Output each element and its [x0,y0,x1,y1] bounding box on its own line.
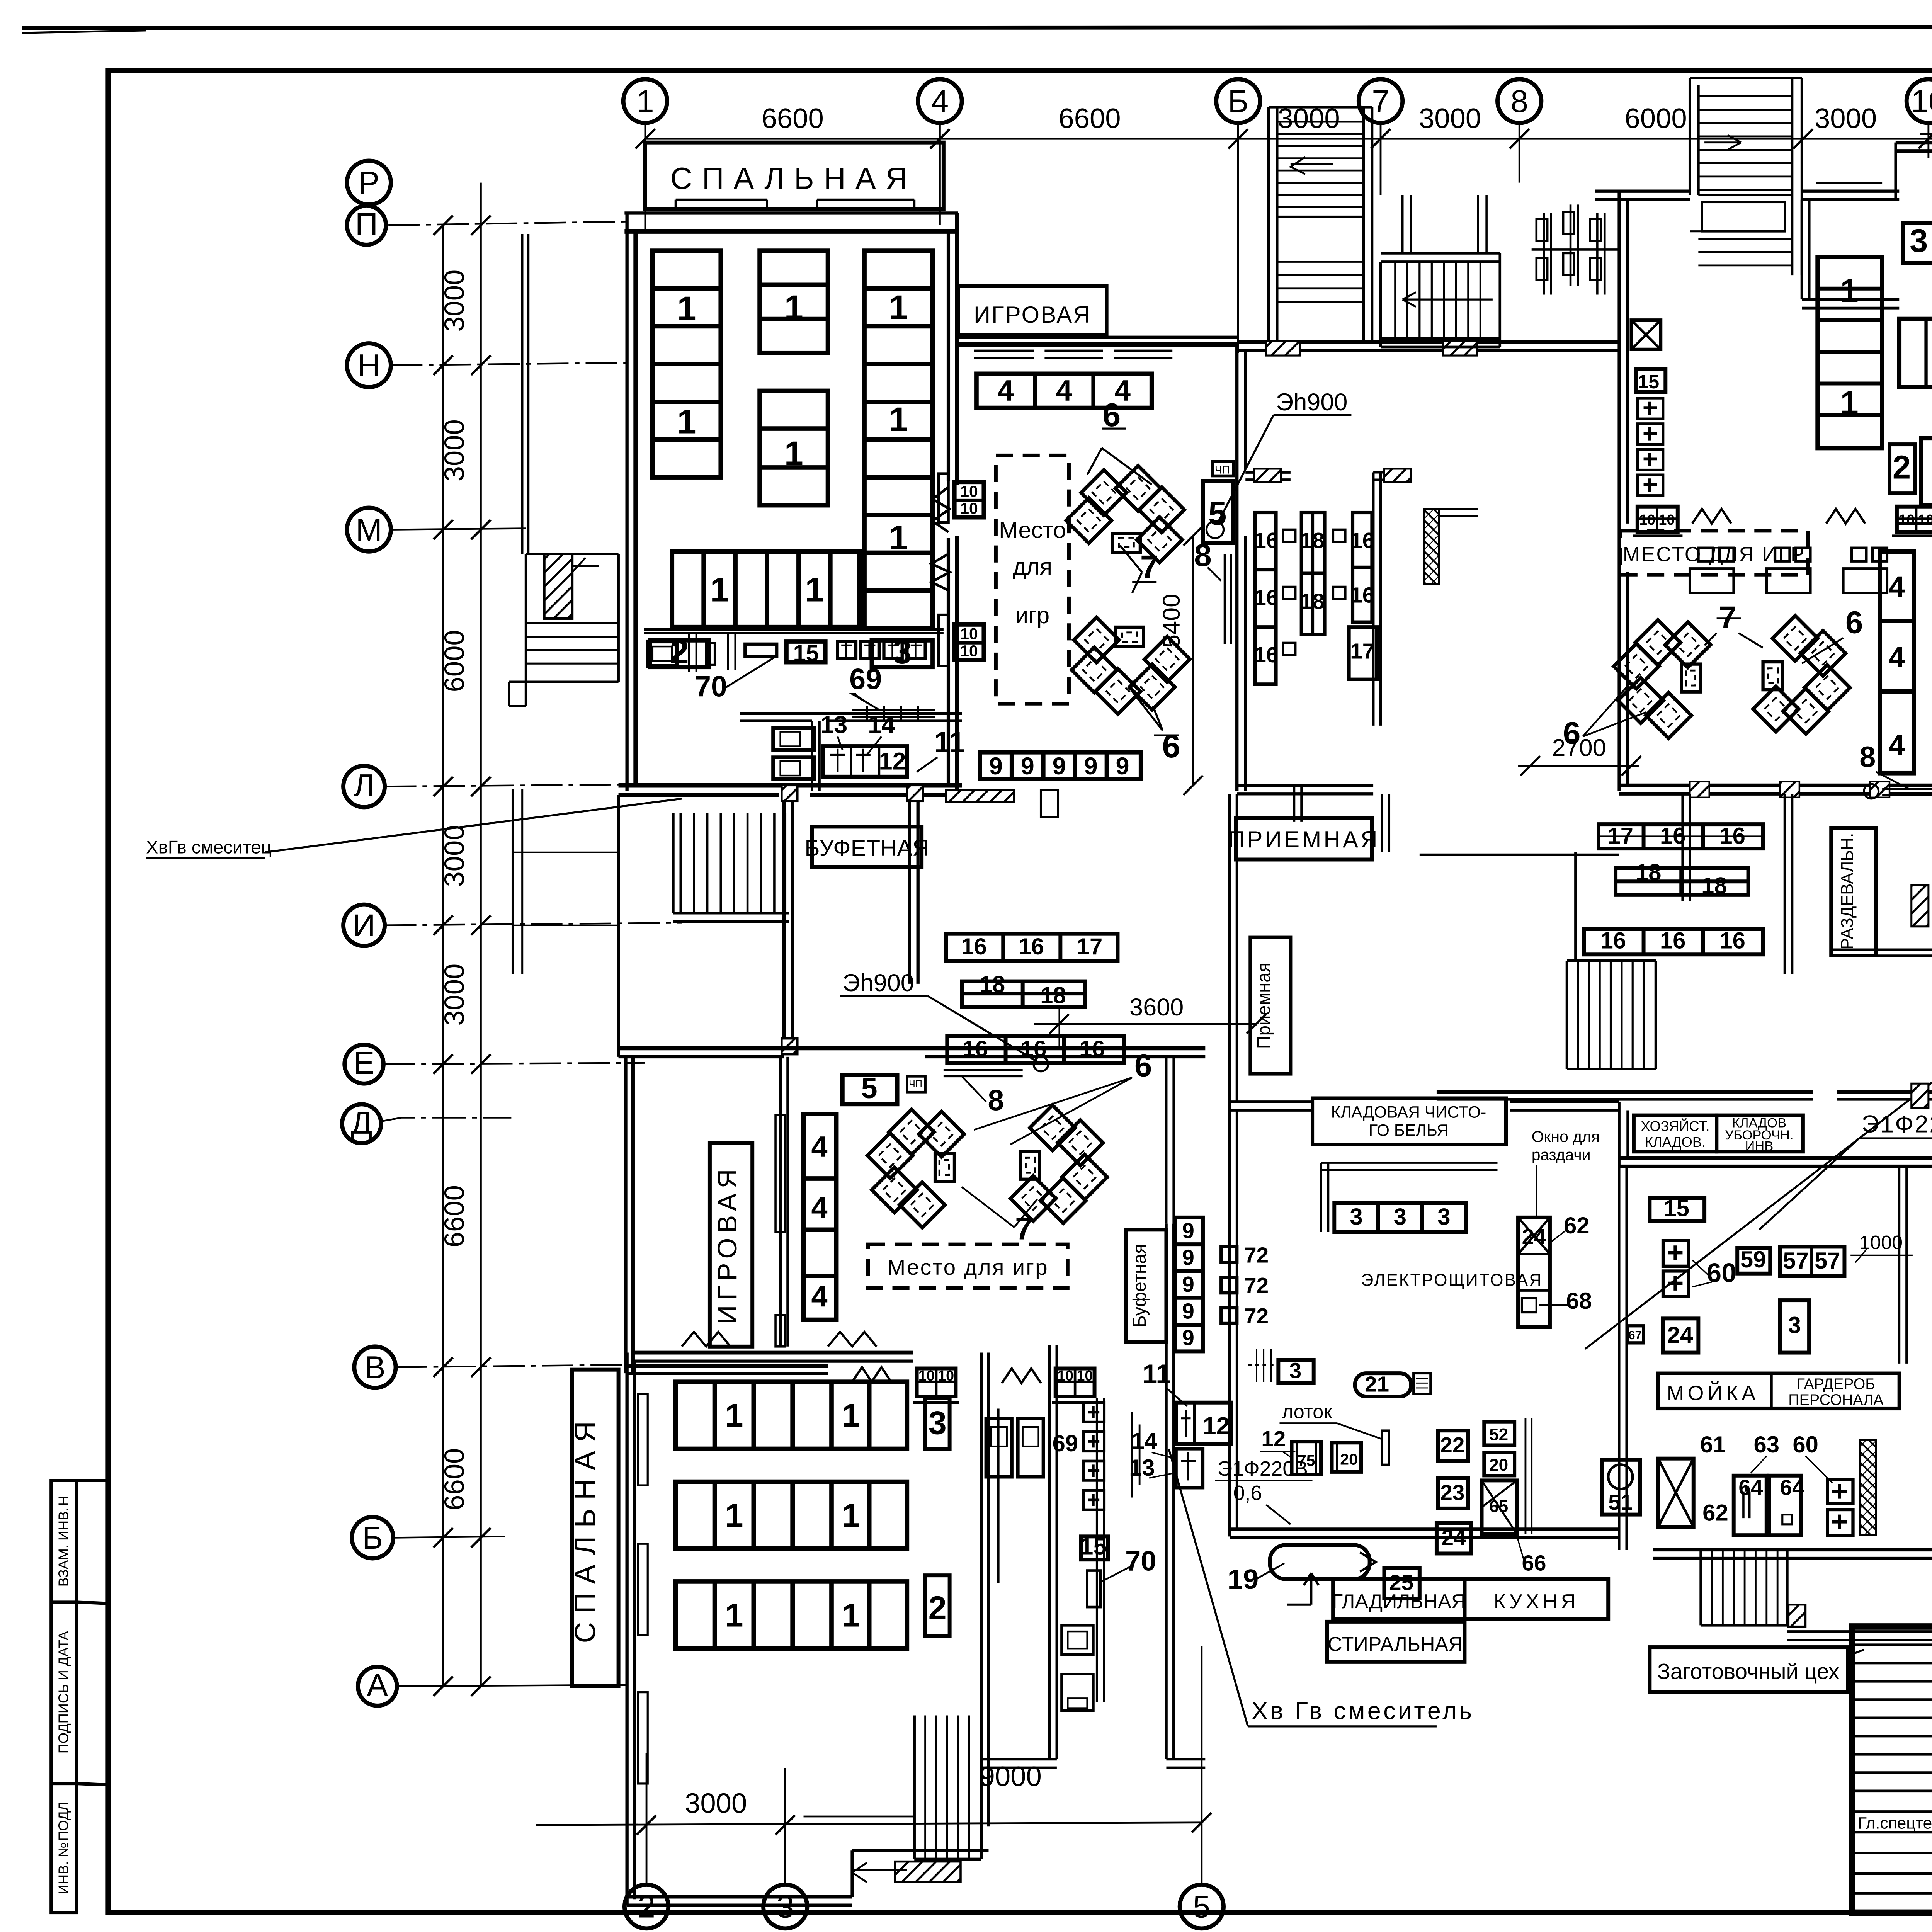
svg-text:Заготовочный цех: Заготовочный цех [1657,1660,1840,1684]
svg-text:4: 4 [1889,571,1905,603]
svg-text:11: 11 [1143,1359,1171,1389]
svg-text:6: 6 [1134,1048,1152,1083]
svg-text:9: 9 [1084,753,1098,780]
bed row 3 + 2 box [1921,438,1932,505]
svg-text:70: 70 [695,670,727,703]
bottom boundary of bedroom block / igrovaya right top [1896,523,1932,524]
svg-text:16: 16 [1660,823,1686,849]
svg-text:ХвГв смеситец: ХвГв смеситец [146,837,272,858]
svg-text:4: 4 [1889,641,1905,674]
svg-text:ИНВ. № ПОДЛ: ИНВ. № ПОДЛ [55,1802,71,1895]
left wall [1619,191,1628,791]
Igrovaya vertical label ML [710,1143,752,1347]
Spalnaya vertical label BL [572,1370,619,1686]
svg-text:16: 16 [1018,934,1044,959]
left wall of laundry block [1230,1102,1237,1536]
svg-text:РАЗДЕВАЛЬН.: РАЗДЕВАЛЬН. [1838,833,1857,950]
right boundary towards buffet column [1166,1057,1173,1224]
interior divider kitchen/mojka [1899,1166,1906,1363]
svg-text:3: 3 [1394,1204,1406,1230]
Priemnaya vertical label center [1250,937,1291,1074]
canopy columns above [1403,195,1411,253]
entrance stair north of Priemnaya [1269,107,1277,342]
bench 8 + 5 box TR [1882,789,1932,795]
svg-text:Б: Б [362,1520,383,1556]
left axis circles [342,161,397,1706]
bed column C [864,251,932,628]
svg-text:21: 21 [1365,1372,1389,1396]
svg-text:3000: 3000 [439,270,470,332]
svg-text:18: 18 [1300,589,1325,614]
svg-text:1: 1 [842,1497,860,1534]
box 3 [872,640,933,667]
svg-text:4: 4 [811,1192,827,1224]
svg-text:КЛАДОВ.: КЛАДОВ. [1645,1134,1706,1150]
svg-text:ЧП: ЧП [909,1079,922,1090]
svg-text:51: 51 [1608,1490,1633,1515]
stair top-right (vertical treads, pokes above wall) [1690,78,1802,78]
svg-text:9: 9 [989,753,1003,780]
svg-text:ПЕРСОНАЛА: ПЕРСОНАЛА [1788,1391,1884,1408]
inner walls [740,713,962,714]
svg-text:3000: 3000 [439,419,470,481]
svg-text:1: 1 [677,289,696,328]
zigzag door marks on top wall [682,1332,730,1347]
left wall [1237,345,1245,791]
axis circles and dimension lines [342,79,1932,1929]
svg-text:10: 10 [960,483,978,500]
svg-text:Э1Ф220В: Э1Ф220В [1218,1458,1308,1480]
laundry block interior [1313,1098,1506,1145]
axis letters [351,84,1932,1925]
bed column B [760,251,828,505]
svg-text:игр: игр [1015,602,1050,628]
svg-text:9: 9 [1182,1246,1194,1270]
mojka/garderob label [1658,1373,1899,1408]
51 circle box [1602,1460,1640,1515]
svg-text:18: 18 [1040,982,1066,1008]
svg-text:20: 20 [1489,1456,1508,1475]
window sill left [676,200,767,208]
left axis dash-dot lines [381,221,682,1686]
svg-text:Окно для: Окно для [1532,1128,1600,1145]
shelf columns 16/18/16 [1255,513,1377,684]
72 squares [1221,1247,1237,1323]
shelf rows ML (razdevalnaya-left) [946,934,1124,1063]
svg-text:3000: 3000 [439,825,470,887]
svg-text:64: 64 [1738,1476,1763,1500]
4-stack ML [804,1114,837,1320]
stairs down right-center [1567,961,1656,1069]
svg-text:ПОДПИСЬ И ДАТА: ПОДПИСЬ И ДАТА [55,1631,71,1753]
svg-text:6600: 6600 [439,1448,470,1510]
left exterior wall [618,922,619,1057]
svg-text:5: 5 [1193,1889,1211,1925]
item 8 bar [1225,554,1231,644]
svg-text:И: И [353,908,376,943]
svg-text:Приемная: Приемная [1253,963,1274,1049]
svg-text:Н: Н [357,348,380,383]
zagotovochniy tseh [1650,1647,1848,1692]
svg-text:6: 6 [1102,397,1121,434]
svg-text:17: 17 [1077,934,1103,959]
svg-text:лоток: лоток [1282,1401,1332,1423]
svg-text:Буфетная: Буфетная [1129,1244,1150,1327]
rows of lockers [1584,824,1763,954]
window sills below wall [974,350,1173,358]
right walls of bed room [981,1353,989,1827]
svg-text:10: 10 [960,625,978,643]
chair clusters ML [867,1109,964,1228]
bathtub 19 [1270,1545,1369,1579]
column blocks [782,785,798,801]
10/10 boxes + bars [931,474,983,666]
svg-text:11: 11 [934,726,965,759]
svg-text:9: 9 [1182,1272,1194,1297]
svg-text:ГЛАДИЛЬНАЯ: ГЛАДИЛЬНАЯ [1332,1590,1466,1613]
svg-text:15: 15 [793,640,819,666]
svg-text:1: 1 [710,571,729,609]
top axis drop lines [645,123,1932,353]
svg-text:18: 18 [1300,529,1325,553]
svg-text:62: 62 [1702,1500,1728,1526]
hatched floor strip right of bufetnaya door [946,790,1014,803]
svg-text:ГАРДЕРОБ: ГАРДЕРОБ [1797,1376,1875,1393]
svg-text:3000: 3000 [685,1788,747,1819]
svg-text:10: 10 [1918,512,1932,528]
wall top exterior [624,213,958,214]
2700 dim TR [1518,765,1639,766]
svg-text:Эh900: Эh900 [842,969,914,997]
svg-text:8: 8 [988,1085,1004,1117]
svg-text:72: 72 [1244,1243,1269,1267]
svg-text:1: 1 [636,84,654,119]
bed row horizontal [672,551,859,627]
svg-text:3: 3 [1910,223,1928,259]
svg-text:68: 68 [1566,1288,1592,1314]
svg-text:1: 1 [1840,384,1858,421]
svg-text:10: 10 [938,1368,954,1384]
svg-text:10: 10 [1658,512,1675,528]
svg-text:69: 69 [1053,1430,1078,1456]
top wall with door hatches [1237,342,1619,343]
svg-text:16: 16 [962,1036,988,1062]
svg-text:6: 6 [1162,728,1180,765]
svg-text:10: 10 [1057,1368,1073,1384]
svg-text:12: 12 [1261,1427,1286,1451]
svg-text:ПРИЕМНАЯ: ПРИЕМНАЯ [1228,827,1380,852]
stair between 7 and 8 (horizontal treads) [1381,253,1500,262]
9-column [1175,1218,1203,1352]
svg-text:1: 1 [677,403,696,441]
svg-text:1: 1 [889,400,908,438]
svg-text:ИГРОВАЯ: ИГРОВАЯ [974,302,1091,328]
svg-text:СПАЛЬНАЯ: СПАЛЬНАЯ [670,161,917,195]
labels 6,7 [1087,429,1179,735]
walls around razdevalnaya-R [1785,794,1792,974]
svg-text:9: 9 [1116,753,1129,780]
mesto dlya igr box ML [868,1244,1068,1288]
window sill right [817,200,914,208]
svg-text:Д: Д [351,1105,372,1140]
svg-text:64: 64 [1780,1476,1804,1500]
corridor bottom walls / ML wing top [618,795,619,922]
svg-text:3: 3 [1437,1204,1450,1230]
svg-text:6600: 6600 [762,103,824,134]
svg-text:4: 4 [811,1131,827,1163]
svg-text:1: 1 [842,1597,860,1634]
svg-text:9: 9 [1182,1326,1194,1350]
svg-text:КЛАДОВАЯ ЧИСТО-: КЛАДОВАЯ ЧИСТО- [1331,1103,1486,1121]
svg-text:5400: 5400 [1158,594,1185,648]
svg-text:1: 1 [784,434,803,473]
wall left exterior [626,213,628,791]
svg-text:3: 3 [1788,1312,1801,1338]
top wall of wing [619,1048,1206,1049]
shelf 69 [852,706,935,721]
svg-text:8: 8 [1194,538,1212,573]
wall bottom of bedroom / corridor top [619,784,962,786]
svg-text:13: 13 [820,711,847,738]
svg-text:16: 16 [1079,1036,1105,1062]
walls [1049,1345,1057,1759]
svg-text:1: 1 [889,288,908,327]
svg-text:57: 57 [1783,1248,1809,1274]
svg-text:10: 10 [1911,84,1932,119]
svg-text:4: 4 [811,1281,827,1313]
svg-text:1: 1 [842,1398,860,1434]
svg-text:БУФЕТНАЯ: БУФЕТНАЯ [804,835,929,861]
svg-text:10: 10 [918,1368,935,1384]
svg-text:2700: 2700 [1552,735,1606,762]
inner wall with hatch door [1245,473,1291,480]
bed column TR [1818,257,1882,448]
svg-text:Место: Место [999,517,1066,543]
5 box + ChP [1203,461,1233,543]
top dimension line [645,138,1932,139]
9x5 row [980,752,1141,779]
svg-text:16: 16 [961,934,987,959]
storeroom labels row [1634,1115,1716,1152]
left wall with windows [627,1353,634,1905]
svg-text:1: 1 [725,1597,743,1634]
bottom axis circles [624,1579,1932,1929]
bottom walls [1230,1529,1619,1537]
svg-text:67: 67 [1628,1328,1642,1342]
svg-text:59: 59 [1740,1247,1766,1272]
chair clusters TL [1066,466,1190,714]
svg-text:52: 52 [1489,1425,1508,1444]
svg-text:2: 2 [1893,449,1911,486]
counter line under beds [644,629,944,630]
svg-text:1: 1 [784,288,803,327]
svg-text:3000: 3000 [439,964,470,1026]
bufetnaya vertical ML [1126,1230,1166,1342]
svg-text:6: 6 [1845,605,1863,640]
svg-text:18: 18 [1701,873,1727,899]
bed column A [653,251,721,477]
svg-text:Место для игр: Место для игр [887,1255,1049,1280]
svg-text:24: 24 [1522,1225,1546,1249]
svg-text:23: 23 [1440,1481,1464,1505]
10/10 pairs bottom ML [852,1367,1098,1402]
shelf column with plus boxes [1097,1398,1104,1702]
svg-text:17: 17 [1350,639,1374,664]
svg-text:СПАЛЬНАЯ: СПАЛЬНАЯ [570,1413,602,1643]
counter row below TL beds [644,633,944,672]
svg-text:15: 15 [1080,1533,1107,1560]
svg-text:П: П [355,207,378,242]
left stamp column [51,1480,108,1913]
column of small boxes: X, 15, plus-cells [1631,320,1661,350]
small squares next to shelves [1283,530,1345,655]
5400 dim [1193,536,1194,785]
svg-text:1: 1 [725,1497,743,1534]
svg-text:ИГРОВАЯ: ИГРОВАЯ [712,1164,742,1324]
dimension labels [439,103,1932,1819]
svg-text:16: 16 [1254,586,1278,610]
svg-text:ВЗАМ. ИНВ. Н: ВЗАМ. ИНВ. Н [55,1496,71,1587]
svg-text:9: 9 [1182,1219,1194,1243]
bufetnaya-left room walls [784,795,793,1054]
svg-text:3: 3 [1350,1204,1362,1230]
svg-text:Р: Р [358,165,379,201]
svg-text:ГО БЕЛЬЯ: ГО БЕЛЬЯ [1369,1121,1448,1140]
bed row 2 [1899,319,1932,387]
svg-text:16: 16 [1719,823,1745,849]
svg-text:Л: Л [354,768,374,803]
top wall [633,1352,913,1353]
middle vertical wall [1373,473,1381,726]
svg-text:3: 3 [1289,1359,1302,1383]
svg-text:СТИРАЛЬНАЯ: СТИРАЛЬНАЯ [1328,1633,1463,1656]
svg-text:65: 65 [1489,1497,1508,1516]
left lower kitchen fixtures: X-box, 64s, sinks [1658,1459,1693,1527]
hatched column [1424,509,1439,584]
Priemnaya box label left [1236,818,1372,859]
svg-text:6600: 6600 [439,1185,470,1247]
svg-text:15: 15 [1638,371,1659,393]
svg-text:9: 9 [1053,753,1066,780]
svg-text:ЧП: ЧП [1215,464,1230,476]
wardrobe cluster top-left of wing [1532,204,1619,294]
svg-text:16: 16 [1660,927,1686,953]
12/13/14 cluster right [1176,1403,1231,1444]
svg-text:20: 20 [1340,1450,1358,1468]
svg-text:1: 1 [889,518,908,556]
tables 4 4 4 [976,374,1152,408]
svg-text:69: 69 [849,663,882,696]
svg-text:МОЙКА: МОЙКА [1667,1381,1759,1405]
svg-text:КУХНЯ: КУХНЯ [1494,1590,1579,1613]
svg-text:75: 75 [1298,1452,1315,1469]
svg-text:6000: 6000 [439,630,470,692]
svg-text:61: 61 [1700,1432,1726,1458]
svg-text:Е: Е [354,1046,375,1081]
svg-text:24: 24 [1667,1322,1693,1348]
svg-text:10: 10 [1639,512,1655,528]
svg-text:3000: 3000 [1419,103,1481,134]
svg-text:72: 72 [1244,1274,1269,1298]
svg-text:12: 12 [879,748,906,775]
mojka room fixtures [1650,1198,1704,1221]
box 2 [650,640,709,667]
svg-text:4: 4 [998,375,1014,407]
svg-text:24: 24 [1442,1526,1466,1550]
hatched pier [1860,1440,1876,1535]
wall right of bedroom [948,231,949,786]
Igrovaya label + wall [958,286,1238,408]
svg-text:12: 12 [1203,1413,1230,1440]
3 box [1903,223,1932,263]
svg-text:14: 14 [1131,1428,1157,1454]
svg-text:1: 1 [725,1398,743,1434]
svg-text:70: 70 [1125,1546,1156,1577]
svg-text:3600: 3600 [1129,994,1184,1021]
svg-text:15: 15 [1663,1196,1689,1221]
bottom dimension lines [536,1823,1201,1825]
svg-text:9: 9 [1021,753,1034,780]
svg-text:63: 63 [1754,1432,1780,1458]
top walls of service block [1230,1102,1311,1110]
internal stair down [680,813,785,913]
lower fixtures [1061,1625,1093,1655]
svg-text:5: 5 [861,1072,878,1105]
window sills top [1816,183,1882,191]
svg-text:57: 57 [1815,1248,1840,1274]
top axis circles [623,79,1932,123]
svg-text:1: 1 [1840,272,1858,309]
svg-text:16: 16 [1600,927,1626,953]
svg-text:17: 17 [1607,823,1633,849]
sinks [773,728,815,750]
window wall column right of Igrovaya label [781,1057,788,1347]
svg-text:62: 62 [1564,1213,1590,1238]
door zigzag [933,487,950,532]
svg-text:9: 9 [1182,1299,1194,1323]
5 box + bench ML [842,1075,897,1104]
svg-text:Б: Б [1228,84,1248,119]
title block table [1852,1626,1932,1912]
svg-text:72: 72 [1244,1304,1269,1328]
svg-text:16: 16 [1350,583,1374,608]
svg-text:6000: 6000 [1624,103,1687,134]
svg-text:В: В [364,1350,386,1385]
22 23 24 25 column [1438,1430,1468,1461]
top walls [1595,191,1690,200]
bottom wall of priemnaya [1237,785,1373,794]
svg-text:Э1Ф220 В N 0,6 КВт h800: Э1Ф220 В N 0,6 КВт h800 [1862,1111,1932,1138]
svg-text:18: 18 [1636,859,1662,885]
svg-text:для: для [1013,554,1052,580]
Razdevaln vertical label [1831,828,1876,956]
bottom wall [627,1897,852,1905]
svg-text:10: 10 [1077,1368,1093,1384]
svg-text:Эh900: Эh900 [1276,389,1347,416]
svg-text:16: 16 [1254,529,1278,553]
svg-text:ИНВ: ИНВ [1745,1139,1773,1154]
21 stadium [1355,1373,1411,1396]
bufetnaya label box [812,827,922,867]
stair bottom center-right [1701,1549,1932,1640]
washstand square [647,643,648,643]
3 box + hatch line laundry [1278,1360,1313,1383]
svg-text:3: 3 [928,1405,946,1442]
svg-text:1: 1 [805,571,824,609]
sheet top trim line [22,27,1932,28]
washbasins [986,1418,1012,1477]
3600 dim [1034,1024,1257,1024]
